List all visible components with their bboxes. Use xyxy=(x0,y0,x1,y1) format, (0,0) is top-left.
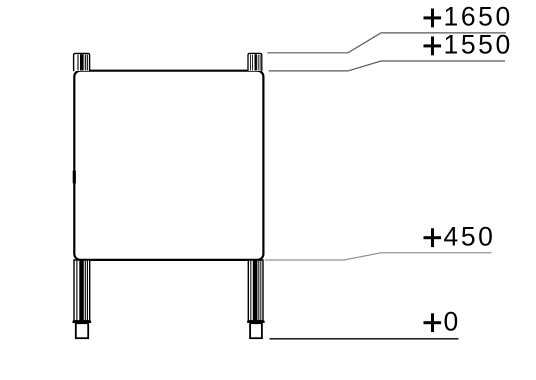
leader +450 xyxy=(265,253,492,260)
left leg xyxy=(73,260,92,338)
leader +1650 xyxy=(267,33,506,53)
right leg xyxy=(247,260,264,338)
right top post xyxy=(248,53,262,71)
handle tick xyxy=(73,171,76,184)
svg-text:1650: 1650 xyxy=(444,1,513,31)
svg-text:450: 450 xyxy=(444,221,496,251)
label +0 xyxy=(424,306,461,336)
left top post xyxy=(74,53,90,71)
svg-text:1550: 1550 xyxy=(444,29,513,59)
svg-text:0: 0 xyxy=(444,306,461,336)
label +1650 xyxy=(424,1,513,31)
label +1550 xyxy=(424,29,513,59)
leader +1550 xyxy=(269,61,505,71)
label +450 xyxy=(424,221,496,251)
leader +0 xyxy=(270,338,459,340)
body outline xyxy=(74,71,263,260)
